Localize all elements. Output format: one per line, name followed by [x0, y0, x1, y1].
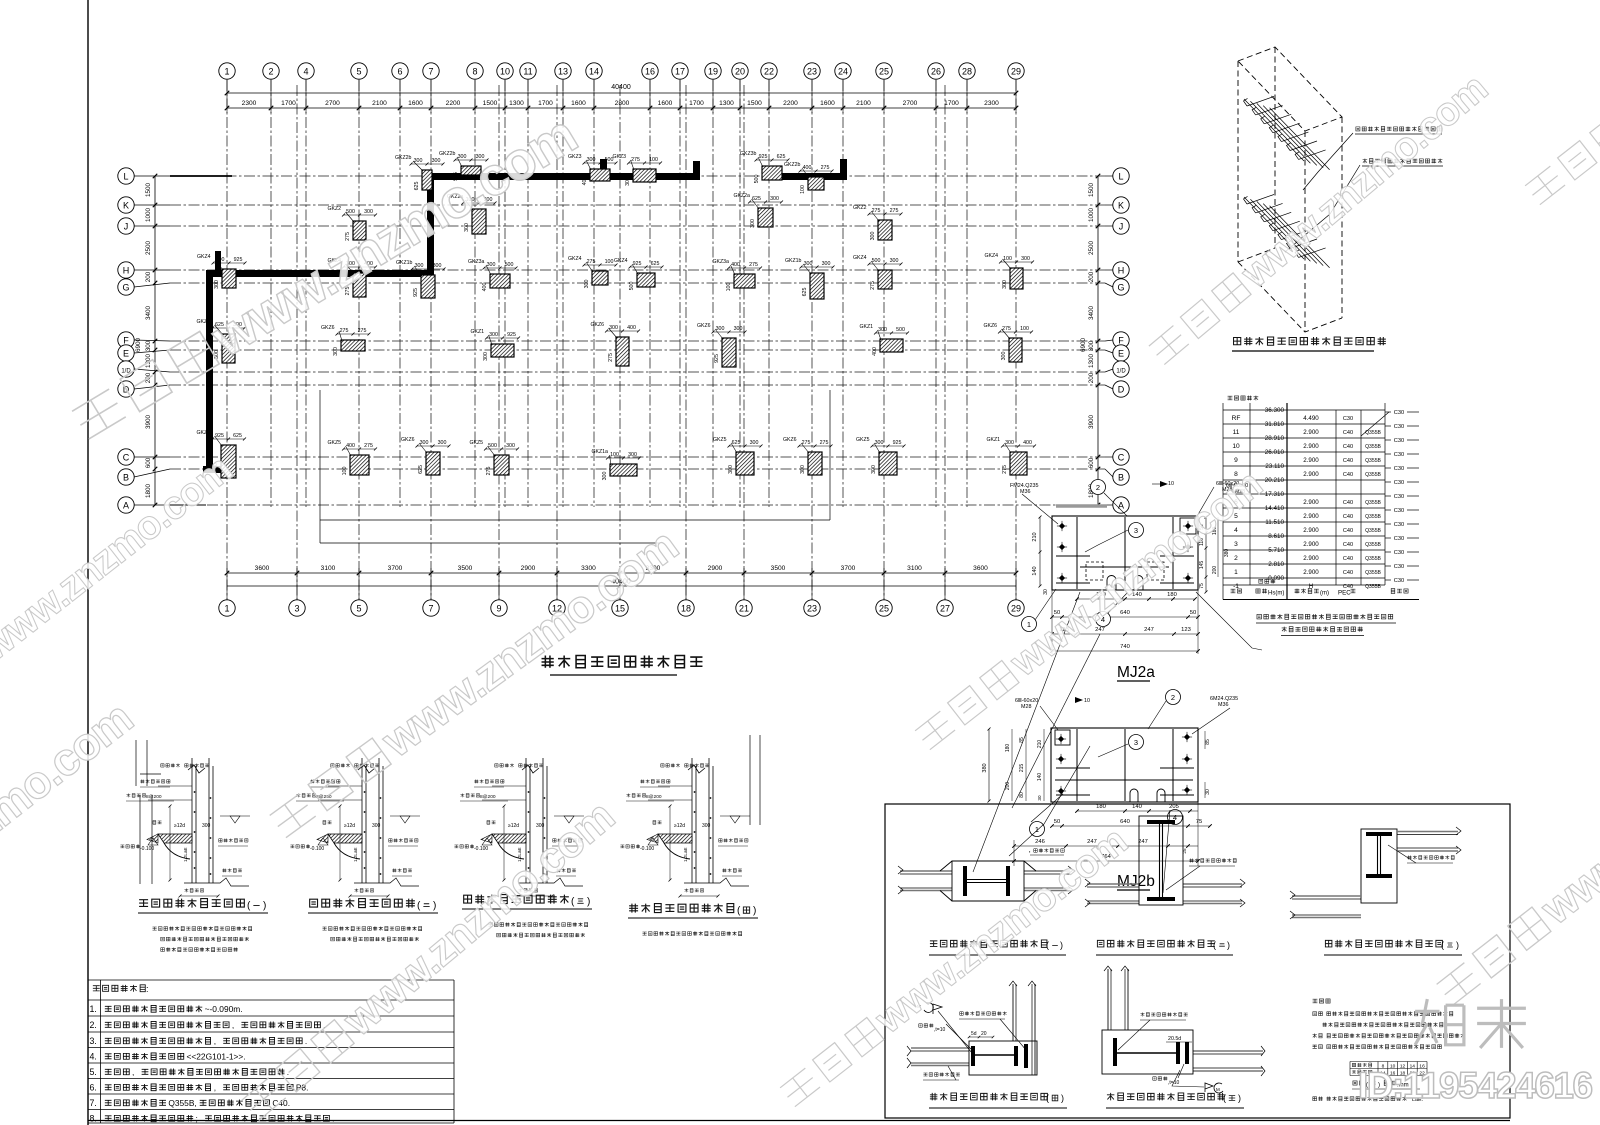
svg-text:19: 19: [708, 67, 718, 77]
svg-text:300: 300: [728, 465, 734, 474]
svg-text:GKZ5: GKZ5: [856, 437, 870, 443]
conn detail 3 title: [1325, 940, 1442, 947]
shear wall top run: [430, 173, 700, 180]
column GKZ3: [613, 154, 663, 186]
svg-text:400: 400: [872, 347, 878, 356]
svg-text:625: 625: [777, 154, 786, 160]
svg-text:C40: C40: [1343, 500, 1353, 506]
stray lines right of detail 4: [750, 735, 760, 825]
column GKZ1: [860, 324, 910, 356]
svg-text:,: ,: [214, 1036, 216, 1046]
svg-text:10: 10: [1232, 443, 1240, 450]
svg-text:F: F: [123, 336, 129, 346]
svg-text:200: 200: [145, 271, 152, 282]
svg-text:L: L: [1118, 172, 1123, 182]
svg-text:2.900: 2.900: [1303, 513, 1319, 520]
shear wall stub above H: [215, 251, 221, 273]
svg-text:B: B: [123, 473, 129, 483]
svg-text:C30: C30: [1394, 522, 1404, 528]
svg-text:Q355B: Q355B: [1365, 500, 1381, 506]
svg-text:C30: C30: [1394, 466, 1404, 472]
MJ2a bolts: [1059, 523, 1065, 529]
svg-text:3: 3: [1134, 738, 1138, 747]
floor table notes: [1257, 614, 1393, 619]
svg-text:C30: C30: [1394, 452, 1404, 458]
svg-text:Q355B: Q355B: [1365, 430, 1381, 436]
column GKZ1: [197, 430, 247, 478]
svg-text:2.900: 2.900: [1303, 499, 1319, 506]
column GKZ5: [470, 440, 520, 475]
column GKZ3a: [713, 259, 763, 291]
svg-text:3900: 3900: [145, 415, 152, 430]
svg-text:85: 85: [1205, 739, 1211, 745]
svg-text:1000: 1000: [1088, 208, 1095, 223]
svg-text:C30: C30: [1394, 480, 1404, 486]
conn detail 2 column box: [1139, 816, 1183, 905]
svg-text:200: 200: [1088, 271, 1095, 282]
column GKZ2a: [734, 193, 784, 228]
sheet left border: [87, 0, 89, 1125]
svg-text:H: H: [123, 266, 130, 276]
svg-text:1: 1: [1234, 569, 1238, 576]
column GKZ4: [614, 258, 664, 290]
svg-text:): ): [1238, 1093, 1241, 1103]
MJ2b right label predrill: [1190, 859, 1237, 863]
svg-text:GKZ2b: GKZ2b: [395, 155, 412, 161]
svg-text:100: 100: [726, 283, 732, 292]
svg-text:75: 75: [1199, 583, 1205, 589]
svg-text:23: 23: [807, 67, 817, 77]
svg-text:.: .: [305, 1036, 307, 1046]
svg-text:500: 500: [505, 262, 514, 268]
svg-text:28.910: 28.910: [1265, 435, 1285, 442]
svg-text:25: 25: [879, 67, 889, 77]
svg-text:8.: 8.: [90, 1114, 97, 1124]
svg-text:380: 380: [1224, 549, 1230, 558]
svg-text:27: 27: [940, 604, 950, 614]
svg-text:GKZ6: GKZ6: [783, 437, 797, 443]
svg-text:625: 625: [732, 440, 741, 446]
svg-text:18: 18: [681, 604, 691, 614]
svg-text:300: 300: [602, 472, 608, 481]
svg-text:300: 300: [800, 465, 806, 474]
wall section titles: [139, 899, 244, 908]
MJ2a callout circles: [1091, 480, 1106, 495]
svg-text:Q355B: Q355B: [1365, 514, 1381, 520]
svg-text:5: 5: [356, 67, 361, 77]
svg-text:4: 4: [303, 67, 308, 77]
svg-text:1300: 1300: [509, 100, 524, 107]
right row bubbles: [1113, 168, 1129, 184]
MJ2a leaders: [1022, 493, 1262, 650]
svg-text:-0.100: -0.100: [310, 846, 324, 852]
svg-text:;: ;: [196, 1114, 198, 1124]
svg-text:3500: 3500: [771, 565, 786, 572]
column GKZ6: [783, 437, 833, 475]
column GKZ1a: [592, 449, 642, 480]
svg-text:E: E: [123, 349, 129, 359]
svg-text:M36: M36: [1020, 489, 1031, 495]
svg-text:1600: 1600: [571, 100, 586, 107]
svg-text:275: 275: [486, 467, 492, 476]
svg-text:3: 3: [1234, 541, 1238, 548]
svg-text:275: 275: [587, 259, 596, 265]
svg-text:PEC: PEC: [1338, 590, 1351, 597]
bottom grid bubbles: [219, 600, 235, 616]
svg-text:GKZ2b: GKZ2b: [439, 151, 456, 157]
panel small table: [1350, 1062, 1427, 1076]
svg-text:300: 300: [628, 452, 637, 458]
svg-text:17: 17: [675, 67, 685, 77]
svg-text:1: 1: [224, 604, 229, 614]
svg-text:GKZ3a: GKZ3a: [713, 259, 730, 265]
svg-text:30: 30: [1043, 589, 1049, 595]
svg-text:GKZ5: GKZ5: [713, 437, 727, 443]
svg-text:100: 100: [342, 467, 348, 476]
svg-text:29: 29: [1011, 67, 1021, 77]
svg-text:20: 20: [735, 67, 745, 77]
notes table texts: [93, 985, 145, 992]
svg-text:7.: 7.: [90, 1098, 97, 1108]
MJ2b corner square: [1055, 730, 1070, 745]
svg-text:205: 205: [1169, 804, 1179, 810]
svg-text:GKZ6: GKZ6: [591, 322, 605, 328]
svg-text:100: 100: [800, 185, 806, 194]
isometric title: [1234, 337, 1386, 345]
column GKZ3a: [468, 259, 518, 291]
svg-text:1.2LaE: 1.2LaE: [183, 847, 188, 862]
svg-text:300: 300: [145, 340, 152, 351]
MJ2a left dims: [1039, 517, 1041, 586]
svg-text:GKZ5: GKZ5: [328, 440, 342, 446]
svg-text:G: G: [1117, 283, 1124, 293]
svg-text:300: 300: [587, 157, 596, 163]
svg-text:2700: 2700: [325, 100, 340, 107]
svg-text:25: 25: [879, 604, 889, 614]
svg-text:B: B: [1118, 473, 1124, 483]
svg-text:500: 500: [488, 443, 497, 449]
svg-text:275: 275: [890, 208, 899, 214]
svg-text:300: 300: [878, 327, 887, 333]
svg-text:246: 246: [1035, 839, 1045, 845]
svg-text:2300: 2300: [984, 100, 999, 107]
svg-text:Q355B: Q355B: [1365, 528, 1381, 534]
svg-text:2.900: 2.900: [1303, 429, 1319, 436]
svg-text:1700: 1700: [538, 100, 553, 107]
column GKZ6: [197, 319, 247, 363]
ramp lines below plan: [320, 519, 830, 521]
svg-text:26.010: 26.010: [1265, 449, 1285, 456]
svg-text:M28: M28: [1021, 704, 1032, 710]
panel table caption: [1353, 1081, 1364, 1085]
svg-text:Q355B: Q355B: [1365, 472, 1381, 478]
conn detail 1 H-beam: [963, 866, 967, 896]
svg-text:6: 6: [397, 67, 402, 77]
column GKZ2: [328, 206, 378, 241]
svg-text:GKZ6: GKZ6: [321, 325, 335, 331]
svg-text:50: 50: [1054, 819, 1060, 825]
svg-text:5d: 5d: [971, 1031, 977, 1037]
svg-text:≥12d: ≥12d: [344, 823, 355, 829]
svg-text:3400: 3400: [145, 306, 152, 321]
svg-text:(: (: [1223, 1093, 1226, 1103]
conn detail 1 wall: [900, 871, 1070, 891]
svg-text:925: 925: [507, 332, 516, 338]
svg-text:2: 2: [1234, 555, 1238, 562]
conn detail 1 embed box: [940, 861, 1036, 901]
svg-text:380: 380: [982, 763, 988, 772]
svg-text:GKZ1: GKZ1: [987, 437, 1001, 443]
svg-text:2: 2: [1171, 693, 1175, 702]
svg-text:300: 300: [750, 219, 756, 228]
svg-text:1300: 1300: [719, 100, 734, 107]
svg-text:C40: C40: [1343, 528, 1353, 534]
svg-text:28: 28: [962, 67, 972, 77]
MJ2a inner plates: [1056, 517, 1194, 589]
svg-text:): ): [587, 897, 590, 908]
MJ2a right dim chain: [1205, 517, 1207, 592]
svg-text:300: 300: [716, 326, 725, 332]
svg-text:300: 300: [433, 263, 442, 269]
conn detail 4 flag symbol: [933, 1004, 942, 1014]
MJ2b bolts: [1058, 736, 1064, 742]
svg-text:C40: C40: [1343, 556, 1353, 562]
svg-text:1600: 1600: [820, 100, 835, 107]
svg-text:Q355B: Q355B: [1365, 570, 1381, 576]
horizontal grid lines: [170, 176, 1105, 505]
svg-text:GKZ1: GKZ1: [860, 324, 874, 330]
top grid bubbles: [219, 63, 235, 79]
svg-text:625: 625: [752, 196, 761, 202]
svg-text:300: 300: [506, 443, 515, 449]
svg-text:8@200: 8@200: [646, 794, 662, 800]
sheet bottom border: [88, 1120, 1510, 1122]
svg-text:2.900: 2.900: [1303, 555, 1319, 562]
svg-text:300: 300: [214, 280, 220, 289]
column GKZ2b: [784, 162, 834, 194]
svg-text:2500: 2500: [145, 241, 152, 256]
svg-text:A: A: [1118, 501, 1124, 511]
column GKZ1: [471, 329, 521, 361]
floor table texts: [1228, 396, 1259, 401]
svg-text:GKZ6: GKZ6: [984, 323, 998, 329]
svg-text:2900: 2900: [708, 565, 723, 572]
svg-text:4.: 4.: [90, 1052, 97, 1062]
svg-text:,: ,: [214, 1083, 216, 1093]
svg-text:6900: 6900: [1080, 338, 1087, 353]
svg-text:2700: 2700: [903, 100, 918, 107]
svg-text:300: 300: [870, 232, 876, 241]
svg-text:275: 275: [749, 262, 758, 268]
svg-text:8: 8: [472, 67, 477, 77]
MJ2b right dims: [1204, 731, 1206, 749]
watermark big logo: [1415, 999, 1526, 1048]
svg-text:GKZ5: GKZ5: [470, 440, 484, 446]
column GKZ4: [985, 253, 1035, 289]
svg-text:300: 300: [1088, 340, 1095, 351]
svg-text:275: 275: [872, 208, 881, 214]
svg-text:75: 75: [1196, 819, 1202, 825]
svg-text:500: 500: [872, 258, 881, 264]
svg-text:C30: C30: [1343, 416, 1353, 422]
svg-text:C: C: [1118, 453, 1125, 463]
svg-text:GKZ1: GKZ1: [471, 329, 485, 335]
svg-text:275: 275: [802, 440, 811, 446]
column GKZ6: [321, 325, 371, 356]
svg-text:300: 300: [609, 325, 618, 331]
svg-text:Q355B: Q355B: [1365, 444, 1381, 450]
svg-text:600: 600: [145, 457, 152, 468]
MJ2b inner plates: [1055, 729, 1194, 801]
svg-text:8@200: 8@200: [146, 794, 162, 800]
svg-text:400: 400: [482, 283, 488, 292]
svg-text:Q355B,: Q355B,: [168, 1098, 196, 1108]
column GKZ6: [401, 437, 451, 475]
svg-text:36.300: 36.300: [1265, 407, 1285, 414]
svg-text:(m): (m): [1320, 591, 1329, 597]
svg-text:J: J: [124, 222, 129, 232]
svg-text:GKZ4: GKZ4: [197, 254, 211, 260]
svg-text:≥12d: ≥12d: [508, 823, 519, 829]
column GKZ1b: [785, 258, 835, 299]
svg-text:29: 29: [1011, 604, 1021, 614]
svg-text:300: 300: [584, 280, 590, 289]
svg-text:GKZ3a: GKZ3a: [468, 259, 485, 265]
svg-text:MJ2b: MJ2b: [1117, 873, 1155, 890]
svg-text:10: 10: [500, 67, 510, 77]
svg-text:300: 300: [734, 326, 743, 332]
svg-text:13: 13: [558, 67, 568, 77]
svg-text:400: 400: [582, 177, 588, 186]
conn detail 3 column box: [1361, 829, 1397, 903]
svg-text:C40: C40: [1343, 472, 1353, 478]
MJ2b callout circles: [1166, 690, 1181, 705]
svg-text:300: 300: [1001, 352, 1007, 361]
svg-text:GKZ1a: GKZ1a: [592, 449, 609, 455]
svg-text:10: 10: [1168, 481, 1174, 487]
MJ2a plate outline: [1052, 516, 1198, 590]
svg-text:): ): [1061, 1093, 1064, 1103]
row L left heavy start: [170, 175, 232, 177]
svg-text:400: 400: [346, 443, 355, 449]
column GKZ4: [328, 258, 378, 297]
svg-text:C40: C40: [1343, 444, 1353, 450]
svg-text:300: 300: [487, 262, 496, 268]
basement column notes table: [88, 980, 454, 1123]
column GKZ5: [856, 437, 906, 475]
svg-text:22: 22: [764, 67, 774, 77]
svg-text:2.900: 2.900: [1303, 471, 1319, 478]
svg-text:(: (: [1213, 940, 1216, 950]
svg-text:50: 50: [1190, 610, 1196, 616]
shear wall top stubs: [600, 159, 607, 176]
floor table header row: [1231, 589, 1242, 593]
svg-text:(: (: [1441, 940, 1444, 950]
svg-text:3: 3: [294, 604, 299, 614]
svg-text:275: 275: [631, 157, 640, 163]
svg-text:210: 210: [1037, 740, 1043, 749]
svg-text:925: 925: [413, 288, 419, 297]
svg-text:8.610: 8.610: [1268, 533, 1284, 540]
svg-text:300: 300: [438, 440, 447, 446]
svg-text:H: H: [1118, 266, 1125, 276]
svg-text:300: 300: [216, 257, 225, 263]
svg-text:1700: 1700: [689, 100, 704, 107]
svg-text:400: 400: [1023, 440, 1032, 446]
svg-text:C40: C40: [1343, 542, 1353, 548]
svg-text:7: 7: [428, 604, 433, 614]
detail panel frame: [885, 804, 1510, 1118]
conn detail 4 beam plates: [971, 1046, 975, 1066]
svg-text:E: E: [1118, 349, 1124, 359]
svg-text:2500: 2500: [1088, 241, 1095, 256]
svg-text:3.: 3.: [90, 1036, 97, 1046]
svg-text:11: 11: [1233, 429, 1240, 436]
MJ2a bottom dims: [1077, 598, 1195, 600]
svg-text:400: 400: [803, 165, 812, 171]
isometric dashed prism: [1238, 47, 1342, 332]
svg-text:1500: 1500: [145, 183, 152, 198]
svg-text:11: 11: [523, 67, 532, 77]
svg-text:K: K: [123, 201, 129, 211]
svg-text:MJ2a: MJ2a: [1117, 664, 1155, 681]
svg-text:2: 2: [1096, 483, 1100, 492]
svg-text:1.: 1.: [90, 1004, 97, 1014]
svg-text:GKZ3b: GKZ3b: [740, 151, 757, 157]
svg-text:GKZ4: GKZ4: [985, 253, 999, 259]
svg-text:C30: C30: [1394, 494, 1404, 500]
conn detail 3 I-beam: [1366, 832, 1392, 836]
svg-text:1000: 1000: [145, 208, 152, 223]
svg-text:C30: C30: [1394, 550, 1404, 556]
svg-text:740: 740: [1120, 644, 1130, 650]
svg-text:A: A: [123, 501, 129, 511]
wall section detail 2: [318, 758, 419, 886]
svg-text:C: C: [123, 453, 130, 463]
plan title: [542, 656, 703, 668]
row A embed line: [1056, 504, 1107, 508]
bottom dimension chain: [227, 572, 1016, 574]
svg-text:300: 300: [822, 261, 831, 267]
svg-text:~-0.090m.: ~-0.090m.: [205, 1004, 243, 1014]
svg-text:2900: 2900: [521, 565, 536, 572]
svg-text:145: 145: [1199, 561, 1205, 570]
svg-text:GKZ4: GKZ4: [853, 255, 867, 261]
conn detail 2 I-beam: [1147, 820, 1175, 824]
svg-text:C30: C30: [1394, 536, 1404, 542]
svg-text:,t=10: ,t=10: [934, 1027, 945, 1033]
svg-text:GKZ4: GKZ4: [568, 256, 582, 262]
svg-text:300: 300: [372, 823, 381, 829]
svg-text:): ): [753, 906, 756, 917]
svg-text:925: 925: [633, 261, 642, 267]
svg-text:Hs(m): Hs(m): [1268, 591, 1284, 597]
column GKZ2b: [395, 155, 445, 190]
svg-text:C40: C40: [1343, 514, 1353, 520]
svg-text:GKZ1: GKZ1: [197, 430, 211, 436]
svg-text:2.900: 2.900: [1303, 443, 1319, 450]
svg-text:300: 300: [489, 332, 498, 338]
column GKZ5: [328, 440, 378, 475]
svg-text:M: M: [1216, 1087, 1220, 1092]
svg-text:C30: C30: [1394, 410, 1404, 416]
svg-text:140: 140: [1032, 566, 1038, 575]
column GKZ4: [568, 256, 618, 288]
svg-text:2.900: 2.900: [1303, 527, 1319, 534]
svg-text:247: 247: [1144, 627, 1154, 633]
svg-text:C30: C30: [1394, 438, 1404, 444]
svg-text:1500: 1500: [1088, 183, 1095, 198]
